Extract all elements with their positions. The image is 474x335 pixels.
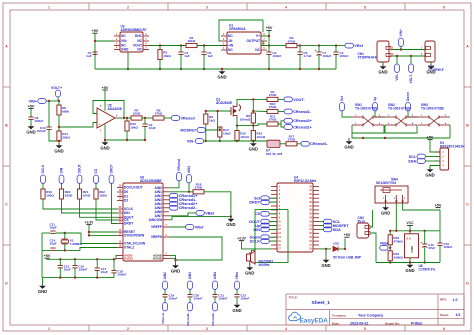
power flag power flag +5V (U3 supply) bbox=[92, 29, 99, 33]
wire to R6 top bbox=[252, 99, 254, 113]
junction output/C2 crossing bbox=[268, 44, 270, 46]
net port net port Down (MCU) bbox=[250, 235, 270, 240]
svg-text:CS: CS bbox=[255, 212, 261, 216]
junction source/R15 bbox=[236, 124, 238, 126]
svg-text:VBat: VBat bbox=[235, 271, 239, 279]
wire buzzer to gnd node bbox=[251, 261, 253, 263]
ground (C22) bbox=[232, 303, 241, 313]
svg-text:DIN: DIN bbox=[253, 228, 260, 232]
resistor R3 bbox=[158, 50, 171, 60]
svg-text:ADA4528: ADA4528 bbox=[108, 107, 122, 111]
wire C2 bottom bbox=[268, 54, 270, 69]
svg-text:NC: NC bbox=[255, 48, 260, 52]
EasyEDA logo bbox=[289, 312, 301, 320]
svg-text:100nF: 100nF bbox=[34, 119, 43, 123]
wire SCLK to R19 bbox=[42, 183, 44, 189]
wire to C10 bbox=[48, 101, 50, 127]
svg-text:5.0: 5.0 bbox=[407, 237, 412, 241]
wire AIN3 to C20 bbox=[189, 289, 191, 294]
svg-text:270Ω: 270Ω bbox=[269, 93, 277, 97]
svg-text:-: - bbox=[99, 112, 100, 116]
svg-text:VOUT-: VOUT- bbox=[293, 98, 305, 102]
svg-text:100nF: 100nF bbox=[168, 296, 177, 300]
wire C13 top stub bbox=[59, 259, 61, 265]
net port net port SDA (MCU) bbox=[324, 227, 341, 232]
svg-text:+5V: +5V bbox=[266, 26, 273, 30]
svg-text:GND: GND bbox=[381, 210, 390, 215]
capacitor C15 bbox=[437, 242, 452, 249]
wire R8 to port bbox=[164, 117, 171, 119]
wire R14 bottom bbox=[58, 141, 60, 143]
net port net port VRef (top) bbox=[345, 43, 364, 48]
wire C4 bottom bbox=[180, 54, 182, 69]
svg-text:CS: CS bbox=[94, 169, 98, 173]
wire C18 bottom stub bbox=[113, 273, 115, 278]
wire DIN stub bbox=[269, 228, 277, 230]
wire C7 top bbox=[318, 46, 320, 52]
svg-text:VRsnsd: VRsnsd bbox=[177, 159, 181, 171]
svg-text:VRsnsd: VRsnsd bbox=[181, 116, 196, 120]
resistor R19 bbox=[41, 189, 54, 199]
wire SW1-SW2 bottom link bbox=[352, 125, 384, 133]
svg-text:1.0: 1.0 bbox=[453, 298, 458, 302]
crystal X1 7.68MHz bbox=[61, 239, 68, 244]
svg-text:DIN: DIN bbox=[60, 167, 64, 173]
svg-text:LED1: LED1 bbox=[333, 243, 340, 246]
svg-text:AINCOM: AINCOM bbox=[149, 218, 163, 222]
svg-text:Sheet_1: Sheet_1 bbox=[312, 300, 331, 306]
U4 pin stubs bbox=[271, 186, 319, 250]
net port VOLT+ bbox=[51, 86, 62, 97]
capacitor C4 bbox=[178, 51, 190, 58]
net port net port VBat (divider) bbox=[380, 241, 389, 250]
connector CN2 XT30PW-F bbox=[421, 41, 435, 62]
svg-text:ADR4520BMZ-R7: ADR4520BMZ-R7 bbox=[121, 28, 147, 32]
regulator U8 CJ7805 bbox=[405, 231, 419, 258]
svg-text:1: 1 bbox=[48, 5, 50, 9]
svg-text:-IN: -IN bbox=[228, 39, 233, 43]
wire R5-R14 bbox=[58, 115, 60, 131]
wire source node bbox=[237, 118, 253, 126]
svg-text:100nF: 100nF bbox=[37, 129, 46, 133]
net port DRDY (ADC) bbox=[109, 163, 114, 183]
title block bbox=[286, 294, 464, 325]
svg-text:AIN1: AIN1 bbox=[187, 166, 191, 173]
svg-text:100nF: 100nF bbox=[218, 296, 227, 300]
wire DRDY stub bbox=[269, 201, 277, 203]
wire gnd stem sw bbox=[348, 138, 350, 139]
svg-text:GND: GND bbox=[232, 308, 241, 313]
junction GND stem bbox=[221, 68, 223, 70]
wire R16 bottom bbox=[252, 140, 254, 143]
svg-text:+IN: +IN bbox=[228, 44, 234, 48]
wire Up stub bbox=[269, 225, 277, 227]
svg-text:4.7uF: 4.7uF bbox=[303, 54, 311, 58]
wire C11 right bbox=[56, 232, 81, 234]
net port net port VRsnsd (U5 out) bbox=[171, 116, 195, 121]
wire R18 to divider tap bbox=[204, 192, 231, 217]
wire +5V to GND rail via C1 bbox=[94, 33, 96, 69]
net port net port CRsnsd2- (row1) bbox=[284, 109, 312, 114]
wire output to feedback bbox=[262, 41, 264, 46]
svg-text:GND: GND bbox=[38, 289, 47, 294]
junction U8 gnd bbox=[409, 261, 411, 263]
capacitor C14 bbox=[50, 248, 55, 250]
resistor R11 bbox=[267, 115, 278, 127]
svg-text:CJ7805 3%: CJ7805 3% bbox=[419, 268, 436, 272]
capacitor C7 bbox=[315, 50, 332, 58]
resistor R4 bbox=[267, 90, 278, 102]
net port net port DRDY (MCU) bbox=[249, 200, 269, 205]
svg-text:100Ω: 100Ω bbox=[65, 194, 73, 198]
wire CN1 to CN2 pin1 bbox=[391, 49, 425, 51]
svg-text:V+: V+ bbox=[256, 34, 260, 38]
net port AIN2 (filter top) bbox=[163, 272, 168, 289]
wire R5 top stub bbox=[58, 101, 60, 105]
svg-text:100mΩ: 100mΩ bbox=[240, 118, 251, 122]
wire XTAL2 to C14 net bbox=[80, 248, 117, 251]
svg-text:NC: NC bbox=[228, 48, 233, 52]
wire bypass gnd rail bbox=[42, 277, 114, 279]
junction R24 gnd bbox=[389, 261, 391, 263]
svg-text:10mΩ: 10mΩ bbox=[257, 135, 266, 139]
junction C9 top bbox=[144, 117, 146, 119]
wire C22 down bbox=[236, 297, 238, 303]
svg-text:TS-1002-0702B: TS-1002-0702B bbox=[355, 106, 378, 110]
svg-text:VBat: VBat bbox=[205, 211, 214, 215]
wire R22 to U6 CS bbox=[96, 199, 117, 220]
junction C6 gnd bbox=[299, 68, 301, 70]
net port AIN1 bbox=[187, 166, 192, 183]
junction sw rail 2 bbox=[384, 137, 386, 139]
wire rail to AVDD bbox=[116, 255, 117, 259]
wire U5 output bbox=[118, 117, 132, 119]
junction R23 rail bbox=[389, 230, 391, 232]
wire LED to +5V bbox=[338, 238, 345, 249]
wire CN1 gnd stub bbox=[382, 62, 384, 64]
svg-text:270Ω: 270Ω bbox=[269, 105, 277, 109]
svg-text:10nF: 10nF bbox=[148, 126, 155, 130]
wire R11 to CRsnsd2+ bbox=[278, 121, 284, 124]
net port net port CRsnsd1+ (ADC) bbox=[170, 193, 199, 198]
ground (CN1) bbox=[378, 64, 387, 74]
net port VBat (filter top) bbox=[235, 271, 240, 289]
wire buzzer loop top bbox=[255, 208, 288, 210]
junction c16 gnd bbox=[74, 276, 76, 278]
U6 pins right bbox=[149, 186, 169, 261]
ground (CN2) bbox=[426, 64, 435, 74]
svg-text:GND: GND bbox=[426, 69, 435, 74]
ground (R14) bbox=[54, 143, 63, 153]
svg-text:1uF: 1uF bbox=[86, 54, 92, 58]
svg-text:1: 1 bbox=[48, 327, 50, 331]
resistor R17 bbox=[286, 134, 297, 146]
svg-text:GND: GND bbox=[100, 145, 109, 150]
net port net port DIN (MCU) bbox=[253, 227, 269, 232]
wire R7 to R8 bbox=[142, 117, 153, 119]
svg-text:6: 6 bbox=[443, 327, 445, 331]
junction VIN- tap bbox=[396, 55, 398, 57]
wire +5V to C8 bbox=[30, 109, 32, 117]
svg-text:CRsnsd2-: CRsnsd2- bbox=[293, 110, 311, 114]
junction R14/C10 bbox=[58, 140, 60, 142]
svg-text:VRef: VRef bbox=[195, 225, 204, 229]
junction c13 gnd bbox=[59, 276, 61, 278]
wire to SYNCPDWN bbox=[89, 234, 117, 236]
svg-text:100nF: 100nF bbox=[240, 296, 249, 300]
wire C4 top bbox=[180, 46, 182, 53]
wire C14 right bbox=[56, 249, 80, 251]
wire R21 to U6 DOUT bbox=[80, 199, 118, 217]
wire CN3 pin1 up bbox=[370, 210, 373, 227]
net port net port CRsnsd2- (ADC) bbox=[170, 205, 198, 210]
wire R12 top stub bbox=[219, 127, 221, 130]
wire drain to top rail bbox=[237, 99, 267, 103]
svg-text:9V in: 9V in bbox=[358, 220, 366, 224]
junction R9/VIN- rail bbox=[205, 140, 207, 142]
wire U7 to R17 bbox=[280, 143, 286, 145]
wire U5 V- down bbox=[104, 124, 106, 140]
capacitor C18 bbox=[111, 269, 126, 276]
junction C18 top bbox=[113, 258, 115, 260]
svg-text:270Ω: 270Ω bbox=[288, 138, 296, 142]
wire AIN1 port to pin bbox=[169, 183, 189, 192]
wire power gnd rail bbox=[376, 262, 440, 264]
svg-text:100kΩ: 100kΩ bbox=[393, 255, 403, 259]
svg-text:VRsnsd-: VRsnsd- bbox=[161, 312, 165, 324]
wire SW2-SW3 link bbox=[385, 125, 417, 133]
connector CN3 9V in bbox=[357, 223, 370, 238]
net port Set (switch) bbox=[340, 95, 345, 111]
capacitor C8 bbox=[28, 116, 43, 123]
wire R9 bottom bbox=[205, 124, 207, 141]
resistor R22 bbox=[94, 189, 107, 199]
svg-text:SYNC/PDWN: SYNC/PDWN bbox=[124, 234, 145, 238]
wire C19 down bbox=[164, 297, 166, 303]
resistor R12 bbox=[218, 127, 231, 137]
svg-text:GND: GND bbox=[226, 222, 235, 227]
svg-text:10kΩ: 10kΩ bbox=[163, 54, 171, 58]
wire R15 top stub bbox=[236, 126, 238, 131]
svg-text:270Ω: 270Ω bbox=[155, 112, 163, 116]
net port CRsnsd2- (filter bottom) bbox=[211, 303, 217, 327]
wire R11 to CRsnsd1+ bbox=[281, 124, 284, 127]
wire R3 top stub bbox=[159, 46, 161, 50]
svg-text:GND: GND bbox=[26, 129, 35, 134]
junction R12 rail bbox=[219, 140, 221, 142]
svg-text:1/1: 1/1 bbox=[456, 313, 461, 317]
capacitor C13 bbox=[58, 264, 71, 271]
net port net port VOUT- bbox=[284, 97, 306, 102]
wire C3 top bbox=[335, 46, 337, 52]
wire SCLK stub bbox=[269, 240, 277, 242]
wire CS to R22 bbox=[95, 183, 97, 189]
svg-text:+3.3V: +3.3V bbox=[85, 220, 95, 224]
junction R13 top bbox=[126, 117, 128, 119]
svg-text:16pF: 16pF bbox=[50, 242, 57, 246]
junction C3 top bbox=[335, 44, 337, 46]
ground (H1) bbox=[425, 167, 434, 177]
svg-text:VREFP: VREFP bbox=[151, 225, 163, 229]
svg-text:NC: NC bbox=[228, 34, 233, 38]
svg-text:GND: GND bbox=[121, 48, 129, 52]
svg-text:+3.3V: +3.3V bbox=[237, 236, 247, 240]
svg-text:100uF: 100uF bbox=[322, 54, 331, 58]
ground (LED) bbox=[321, 258, 330, 268]
wire C6 top bbox=[299, 46, 301, 52]
wire XTAL1 to C11 net bbox=[81, 233, 117, 244]
net port DOUT (ADC) bbox=[77, 164, 82, 183]
svg-text:OPA350UA: OPA350UA bbox=[229, 27, 246, 31]
wire C16 bottom stub bbox=[74, 268, 76, 278]
junction divider top bbox=[58, 100, 60, 102]
junction R15 rail bbox=[236, 140, 238, 142]
wire R13 bottom stub bbox=[126, 131, 128, 140]
resistor R20 bbox=[59, 189, 72, 199]
svg-text:270Ω: 270Ω bbox=[195, 186, 203, 190]
wire +5V bypass rail bbox=[47, 258, 116, 259]
capacitor C5 bbox=[201, 51, 213, 58]
svg-text:2: 2 bbox=[127, 327, 129, 331]
power flag power flag +3.3V (MCU) bbox=[237, 236, 247, 240]
svg-text:100Ω: 100Ω bbox=[83, 194, 91, 198]
wire to U3 VIN bbox=[95, 40, 114, 42]
power flag power flag +5V (system) bbox=[435, 203, 442, 207]
wire C14 left bbox=[42, 249, 50, 251]
resistor R8 bbox=[153, 109, 164, 121]
wire R15 bottom bbox=[236, 140, 238, 143]
svg-text:1kΩ: 1kΩ bbox=[209, 119, 215, 123]
resistor R10 bbox=[267, 102, 278, 114]
net port net port SCLK (MCU) bbox=[250, 239, 270, 244]
svg-text:SDA: SDA bbox=[333, 228, 341, 232]
svg-text:SK12D07VG4: SK12D07VG4 bbox=[376, 181, 396, 185]
svg-text:100nF: 100nF bbox=[117, 272, 126, 276]
net port VRsnsd (AIN0) bbox=[177, 159, 182, 181]
wire MCU to LED bbox=[319, 248, 331, 250]
title texts bbox=[289, 296, 450, 326]
wire U1 output rail bbox=[261, 45, 345, 47]
svg-text:CRsnsd1-: CRsnsd1- bbox=[310, 142, 328, 146]
wire MOSFET port to gate node bbox=[205, 111, 217, 130]
junction vrefn gnd bbox=[174, 259, 176, 261]
svg-text:AIN4: AIN4 bbox=[213, 272, 217, 279]
junction C10 tap bbox=[48, 100, 50, 102]
junction C2/GND bbox=[268, 68, 270, 70]
svg-text:DNC: DNC bbox=[135, 34, 143, 38]
wire R6 top to R10 bbox=[253, 110, 267, 113]
ground (VBat filter) bbox=[226, 217, 235, 227]
svg-text:NC: NC bbox=[137, 39, 142, 43]
wire SW3 pin4 down bbox=[449, 125, 451, 138]
wire R4 to VOUT- bbox=[278, 98, 284, 100]
resistor R9 bbox=[204, 114, 216, 124]
wire Set stub bbox=[269, 197, 277, 199]
ground (switches) bbox=[344, 139, 353, 149]
junction C16 top bbox=[74, 258, 76, 260]
capacitor C12 bbox=[421, 242, 436, 250]
wire Up port to switch bbox=[375, 111, 385, 117]
resistor R1 bbox=[186, 36, 197, 48]
resistor R6 bbox=[240, 113, 256, 123]
wire gate bbox=[206, 110, 231, 112]
junction C9 gnd bbox=[144, 139, 146, 141]
svg-text:+: + bbox=[99, 122, 101, 126]
wire C12 bottom bbox=[424, 247, 426, 262]
svg-text:GND: GND bbox=[405, 268, 414, 273]
svg-text:10uF: 10uF bbox=[101, 270, 108, 274]
svg-text:Your Company: Your Company bbox=[358, 314, 383, 318]
net port net port CRsnsd1- bbox=[301, 141, 329, 146]
wire C5 bottom bbox=[203, 54, 205, 69]
wire C12 top bbox=[424, 231, 426, 244]
resistor R23 bbox=[388, 235, 403, 245]
wire SW4 common down bbox=[395, 203, 397, 231]
junction sw rail 1 bbox=[362, 137, 364, 139]
svg-text:47uF: 47uF bbox=[428, 246, 435, 250]
svg-text:ESP32-S2-Mini: ESP32-S2-Mini bbox=[294, 179, 316, 183]
resistor R18 bbox=[193, 182, 204, 194]
ground (bypass) bbox=[38, 284, 47, 294]
svg-text:AOD2610E: AOD2610E bbox=[216, 101, 232, 105]
switch SW3 TS-1002-0702B bbox=[418, 115, 450, 126]
resistor R24 bbox=[388, 251, 403, 261]
junction sw4 rail bbox=[395, 230, 397, 232]
power flag power flag +5V (U5) bbox=[102, 86, 109, 90]
wire +3.3V to MCU bbox=[242, 241, 272, 249]
junction VBat divider bbox=[389, 247, 391, 249]
wire C21 down bbox=[214, 297, 216, 303]
wire GND rail top block bbox=[95, 68, 336, 70]
wire DIN to R20 bbox=[61, 183, 63, 189]
svg-text:Company:: Company: bbox=[332, 313, 347, 317]
capacitor C11 bbox=[50, 231, 55, 233]
wire C9 top bbox=[144, 118, 146, 124]
svg-text:VOLT+: VOLT+ bbox=[51, 86, 62, 90]
junction C12 gnd bbox=[424, 261, 426, 263]
wire C20 down bbox=[189, 297, 191, 303]
svg-text:+5V: +5V bbox=[344, 233, 351, 237]
svg-text:TITLE:: TITLE: bbox=[289, 296, 298, 300]
junction R6 top tap bbox=[252, 98, 254, 100]
wire DRDY to U6 bbox=[112, 183, 118, 223]
wire feedback loop bbox=[219, 20, 263, 41]
junction R3/GND rail bbox=[159, 68, 161, 70]
wire VIN- stem bbox=[396, 56, 398, 64]
svg-text:10kΩ: 10kΩ bbox=[188, 39, 196, 43]
svg-text:270Ω: 270Ω bbox=[269, 118, 277, 122]
svg-text:5: 5 bbox=[364, 327, 366, 331]
wire R12 bottom bbox=[219, 137, 221, 141]
net port SCLK (ADC) bbox=[41, 164, 46, 183]
wire +3.3V down bbox=[88, 225, 90, 236]
wire C11 left bbox=[42, 232, 50, 234]
net port DIN (ADC) bbox=[59, 167, 64, 183]
net port net port Set (MCU) bbox=[254, 196, 269, 201]
junction C7 top bbox=[318, 44, 320, 46]
junction R3 top bbox=[159, 44, 161, 46]
net port AIN4 (filter top) bbox=[213, 272, 218, 289]
svg-text:+5V: +5V bbox=[92, 29, 99, 33]
wire R13 top stub bbox=[126, 118, 128, 121]
svg-text:GND: GND bbox=[249, 146, 258, 151]
junction R9 top bbox=[205, 110, 207, 112]
wire U8 gnd pin bbox=[409, 258, 411, 263]
resistor R16 bbox=[251, 131, 265, 141]
svg-text:100nF: 100nF bbox=[78, 267, 87, 271]
wire VCC stem bbox=[409, 225, 411, 230]
power flag power flag +3.3V (reset) bbox=[85, 220, 95, 224]
